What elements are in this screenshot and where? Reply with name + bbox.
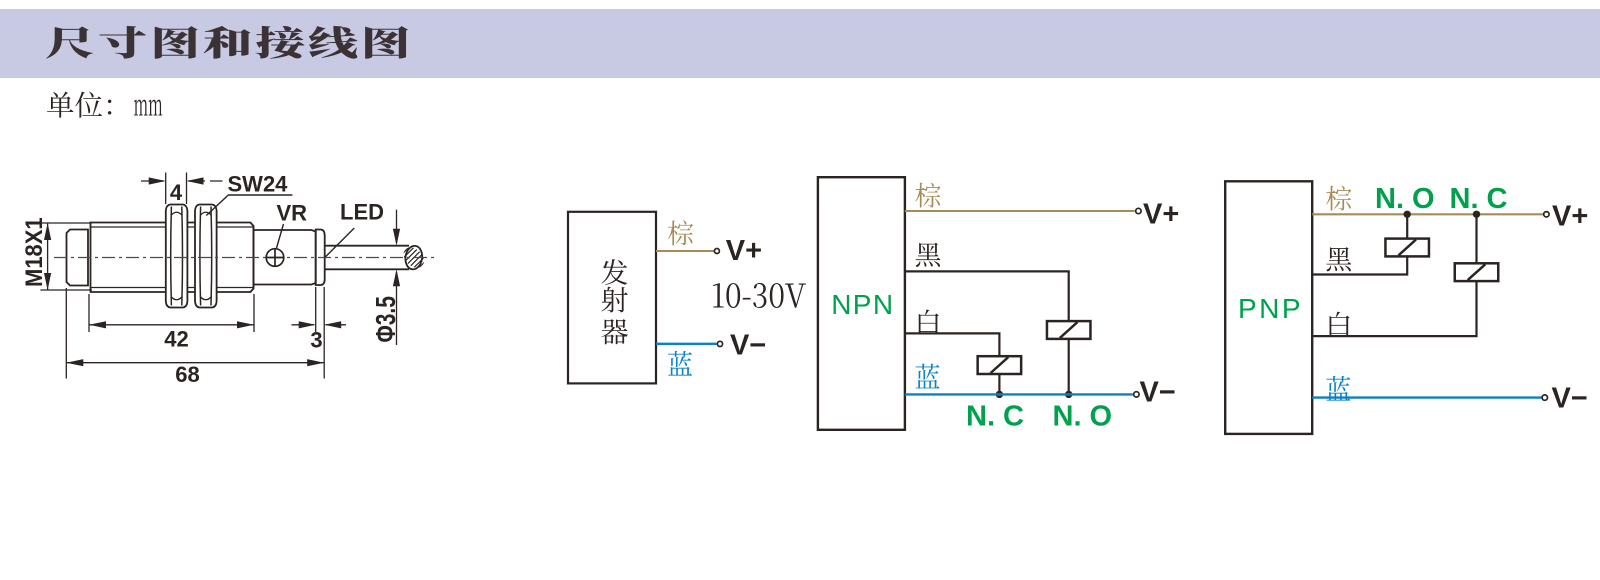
PNP load N.C	[1455, 263, 1499, 281]
dim M18X1 arrows	[44, 223, 51, 240]
PNP N.O tap wire	[1406, 214, 1408, 239]
dim 68 line	[66, 362, 324, 364]
center line	[54, 257, 434, 259]
PNP white wire	[1312, 280, 1476, 336]
PNP box	[1225, 181, 1312, 434]
dim M18X1 line	[47, 223, 49, 290]
title bar	[0, 9, 1600, 78]
sensor sensing tip	[67, 230, 89, 286]
title text 尺寸图和接线图	[46, 26, 408, 59]
PNP blue wire	[1312, 396, 1542, 398]
svg-text:68: 68	[175, 362, 199, 387]
PNP N.O tap dot	[1404, 211, 1411, 218]
svg-text:V+: V+	[1143, 199, 1179, 231]
NPN N.O load to V- wire	[1068, 339, 1070, 395]
svg-text:N. C: N. C	[966, 400, 1024, 432]
transmitter brown wire V+	[656, 250, 717, 252]
NPN brown wire	[905, 210, 1135, 212]
NPN V+ node	[1136, 208, 1141, 213]
svg-text:42: 42	[164, 327, 188, 352]
NPN white wire	[905, 333, 1000, 356]
PNP white wire label 白	[1330, 312, 1350, 337]
svg-text:NPN: NPN	[831, 289, 894, 320]
svg-text:V−: V−	[1140, 376, 1176, 408]
svg-text:M18X1: M18X1	[20, 217, 47, 287]
sensor threaded body	[91, 223, 254, 293]
PNP brown wire	[1312, 213, 1545, 215]
transmitter blue wire V-	[656, 343, 717, 345]
svg-text:4: 4	[170, 180, 183, 205]
PNP brown wire label 棕	[1326, 186, 1351, 211]
svg-text:N. O: N. O	[1375, 183, 1435, 215]
SW24 leader	[206, 195, 292, 216]
brown wire label 棕	[668, 220, 693, 245]
cable end ellipse with hatching	[395, 239, 432, 277]
transmitter label 射	[601, 287, 627, 313]
NPN black wire	[905, 271, 1069, 321]
PNP N.C tap wire	[1475, 214, 1477, 264]
NPN load N.O	[1047, 321, 1091, 339]
unit label 单位：mm	[47, 92, 111, 118]
svg-text:V+: V+	[1552, 200, 1588, 232]
PNP black wire	[1312, 255, 1407, 274]
NPN blue wire	[905, 393, 1133, 395]
PNP V+ node	[1544, 212, 1549, 217]
NPN N.C junction dot	[996, 391, 1003, 398]
V- terminal node	[717, 341, 722, 346]
transmitter label 发	[601, 259, 627, 285]
svg-text:V+: V+	[726, 235, 762, 267]
NPN V- node	[1134, 392, 1139, 397]
dim 4 lines	[141, 180, 223, 182]
hex nut 1	[166, 205, 188, 308]
svg-text:V−: V−	[730, 329, 766, 361]
VR leader	[277, 224, 284, 248]
svg-text:SW24: SW24	[228, 172, 289, 197]
dim 4 arrows	[149, 177, 166, 184]
dim 68 extension line	[66, 287, 324, 379]
transmitter label 器	[601, 319, 628, 344]
NPN N.C load to V- wire	[998, 374, 1000, 395]
rear housing	[254, 230, 316, 285]
svg-text:Φ3.5: Φ3.5	[371, 296, 401, 342]
svg-text:N. O: N. O	[1053, 400, 1113, 432]
NPN load N.C	[978, 356, 1022, 374]
dim 3.5 arrows	[393, 229, 400, 246]
dim 4 extension lines	[166, 173, 187, 205]
supply range label 10-30V	[713, 283, 806, 308]
transmitter box 发射器	[568, 212, 656, 384]
dim 3.5 lines	[396, 210, 398, 345]
dim 42 arrows	[89, 321, 106, 328]
PNP black wire label 黑	[1326, 247, 1351, 271]
svg-text:3: 3	[310, 328, 322, 353]
LED leader	[325, 228, 354, 257]
dim 42 line	[89, 324, 254, 326]
NPN black wire label 黑	[916, 243, 941, 267]
svg-text:V−: V−	[1552, 383, 1588, 415]
PNP blue wire label 蓝	[1326, 376, 1350, 401]
cable	[325, 246, 409, 270]
svg-text:VR: VR	[277, 201, 308, 226]
NPN brown wire label 棕	[915, 183, 940, 208]
svg-text:LED: LED	[340, 200, 384, 225]
thread relief lines	[91, 227, 254, 288]
PNP V- node	[1542, 395, 1547, 400]
dim M18X1 extension lines	[40, 223, 92, 290]
dim 42 extension lines	[89, 294, 254, 332]
dim 3 arrows	[299, 321, 316, 328]
blue wire label 蓝	[668, 351, 692, 376]
V+ terminal node	[714, 249, 719, 254]
dim 3 lines	[292, 324, 347, 326]
dim 68 arrows	[66, 359, 83, 366]
PNP N.C tap dot	[1473, 211, 1480, 218]
NPN blue wire label 蓝	[916, 364, 940, 389]
svg-text:N. C: N. C	[1450, 183, 1508, 215]
dim 3 extension lines	[315, 287, 317, 332]
hex nut 2	[195, 205, 217, 308]
svg-text:PNP: PNP	[1238, 293, 1303, 324]
cable gland end cap	[316, 230, 325, 286]
housing left edge	[253, 226, 255, 289]
VR adjuster circle	[266, 249, 284, 267]
NPN white wire label 白	[919, 310, 939, 335]
PNP load N.O	[1385, 239, 1429, 257]
NPN N.O junction dot	[1065, 391, 1072, 398]
NPN box	[818, 177, 905, 430]
